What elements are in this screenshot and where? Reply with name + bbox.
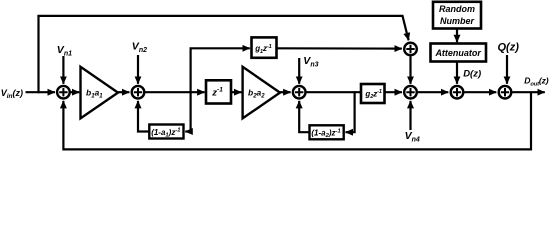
wire node N1 tap down into box (1-a1)z-1 [185, 91, 190, 131]
delay z-1 block [206, 80, 231, 103]
gain b1a1 (amplifier triangle) [81, 67, 119, 119]
feedback box (1-a2)z-1 [310, 125, 344, 139]
wire summer S5 to summer S6 [464, 91, 496, 93]
wire output Dout [512, 91, 544, 93]
wire node N2 tap down into box (1-a2)z-1 [346, 91, 355, 132]
wire bottom feedback from output to summer S1 [63, 92, 531, 149]
wire input Vin [26, 91, 56, 93]
svg-text:Random: Random [439, 4, 475, 14]
random number box [433, 2, 481, 29]
wire Vn2 arrow into summer S2 [137, 55, 139, 84]
summer S1 [57, 86, 70, 99]
wire box (1-a1)z-1 to summer S2 bottom [138, 101, 149, 132]
svg-text:D(z): D(z) [463, 69, 481, 80]
svg-text:Number: Number [440, 16, 475, 26]
wire node N1 tap up to gain g1 [191, 48, 250, 92]
feedback box (1-a1)z-1 [149, 125, 183, 139]
svg-text:Vn3: Vn3 [303, 55, 318, 69]
wire summer S4 to summer S5 [418, 91, 448, 93]
wire summer S1 to gain b1a1 [70, 91, 80, 93]
wire gain b2a2 to summer S3 [280, 91, 291, 93]
summer S3 [293, 86, 306, 99]
svg-text:Vn4: Vn4 [405, 130, 420, 144]
summer S4 [404, 86, 417, 99]
summer S2 [132, 86, 145, 99]
svg-text:Q(z): Q(z) [498, 42, 520, 54]
wire Vn3 arrow into summer S3 [298, 58, 300, 84]
wire Vn4 arrow up into summer S4 [409, 101, 411, 130]
svg-text:Vin(z): Vin(z) [1, 88, 23, 100]
svg-text:Vn2: Vn2 [132, 41, 147, 55]
wire delay z-1 to gain b2a2 [231, 91, 241, 93]
wire summer SA down to summer S4 [409, 56, 411, 83]
wire Q(z) arrow into summer S6 [506, 55, 508, 84]
wire top feed-forward path [37, 16, 408, 40]
wire summer S3 to gain g2 [305, 91, 361, 93]
svg-text:Vn1: Vn1 [57, 44, 72, 58]
wire gain b1a1 to summer S2 [118, 91, 129, 93]
summer S6 [499, 86, 512, 99]
wire box (1-a2)z-1 to summer S3 bottom [299, 101, 309, 132]
svg-text:Dout(z): Dout(z) [524, 75, 548, 87]
wire summer S2 to delay z-1 [144, 91, 204, 93]
svg-text:Attenuator: Attenuator [434, 48, 481, 58]
gain g1z-1 block [252, 37, 277, 57]
wire input tee up to feed-forward [37, 16, 39, 93]
summer S5 [451, 86, 464, 99]
wire random number to attenuator [456, 29, 458, 43]
summer SA (dither/feed-forward adder) [404, 43, 417, 56]
wire Vn1 arrow into summer S1 [62, 56, 64, 84]
wire gain g2 to summer S4 [385, 91, 403, 93]
wire attenuator to summer S5 [456, 62, 458, 84]
gain b2a2 (amplifier triangle) [243, 67, 280, 119]
gain g2z-1 block [361, 84, 385, 103]
wire gain g1 to summer SA [277, 47, 402, 49]
attenuator box [431, 44, 487, 62]
